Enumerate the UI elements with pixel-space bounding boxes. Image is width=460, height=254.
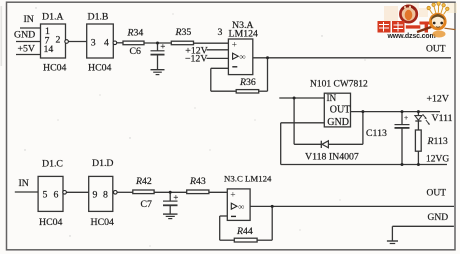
- svg-text:R36: R36: [239, 77, 256, 88]
- svg-text:+: +: [173, 192, 178, 202]
- svg-text:+: +: [404, 113, 408, 122]
- svg-text:www.dzsc.com: www.dzsc.com: [387, 33, 436, 40]
- svg-text:∞: ∞: [238, 201, 244, 211]
- svg-text:HC04: HC04: [39, 217, 63, 228]
- svg-text:3: 3: [218, 27, 223, 38]
- svg-text:OUT: OUT: [427, 189, 447, 199]
- svg-text:LM124: LM124: [229, 29, 258, 40]
- svg-text:+: +: [232, 41, 237, 51]
- svg-text:HC04: HC04: [43, 63, 67, 74]
- svg-text:12VG: 12VG: [426, 155, 449, 165]
- svg-text:GND: GND: [327, 117, 349, 128]
- svg-text:R42: R42: [135, 176, 152, 187]
- svg-text:5: 5: [43, 190, 48, 201]
- svg-text:2: 2: [56, 35, 61, 46]
- svg-text:R34: R34: [127, 28, 144, 39]
- svg-text:+12V: +12V: [427, 94, 449, 105]
- svg-text:4: 4: [104, 38, 109, 49]
- svg-text:C6: C6: [130, 46, 142, 57]
- svg-text:HC04: HC04: [88, 63, 112, 74]
- svg-text:C7: C7: [141, 199, 153, 210]
- svg-text:D1.B: D1.B: [88, 12, 109, 23]
- svg-text:V118 IN4007: V118 IN4007: [305, 152, 359, 163]
- svg-text:D1.A: D1.A: [42, 12, 64, 23]
- svg-text:IN: IN: [24, 14, 34, 25]
- svg-text:OUT: OUT: [426, 45, 446, 55]
- svg-text:−12V: −12V: [185, 54, 207, 65]
- svg-text:C113: C113: [366, 128, 387, 139]
- svg-text:+: +: [160, 41, 165, 51]
- svg-text:3: 3: [91, 38, 96, 49]
- svg-text:D1.C: D1.C: [42, 159, 63, 170]
- svg-text:GND: GND: [428, 213, 449, 223]
- svg-text:D1.D: D1.D: [92, 158, 114, 169]
- svg-text:9: 9: [93, 190, 98, 201]
- svg-text:V111: V111: [432, 113, 453, 124]
- svg-text:R113: R113: [427, 136, 448, 147]
- svg-text:∞: ∞: [240, 51, 246, 61]
- svg-text:GND: GND: [14, 30, 35, 41]
- svg-text:R43: R43: [189, 176, 206, 187]
- svg-text:N3.C LM124: N3.C LM124: [224, 174, 272, 184]
- svg-text:IN: IN: [327, 93, 337, 103]
- svg-text:14: 14: [44, 44, 54, 55]
- svg-text:HC04: HC04: [91, 217, 115, 228]
- svg-text:6: 6: [54, 190, 59, 201]
- svg-text:8: 8: [103, 190, 108, 201]
- svg-text:R35: R35: [175, 27, 192, 38]
- svg-text:N101 CW7812: N101 CW7812: [310, 80, 368, 90]
- svg-text:+5V: +5V: [18, 44, 36, 55]
- svg-text:OUT: OUT: [330, 104, 351, 115]
- svg-text:IN: IN: [19, 178, 29, 189]
- svg-text:+: +: [230, 191, 235, 201]
- svg-text:R44: R44: [236, 226, 253, 237]
